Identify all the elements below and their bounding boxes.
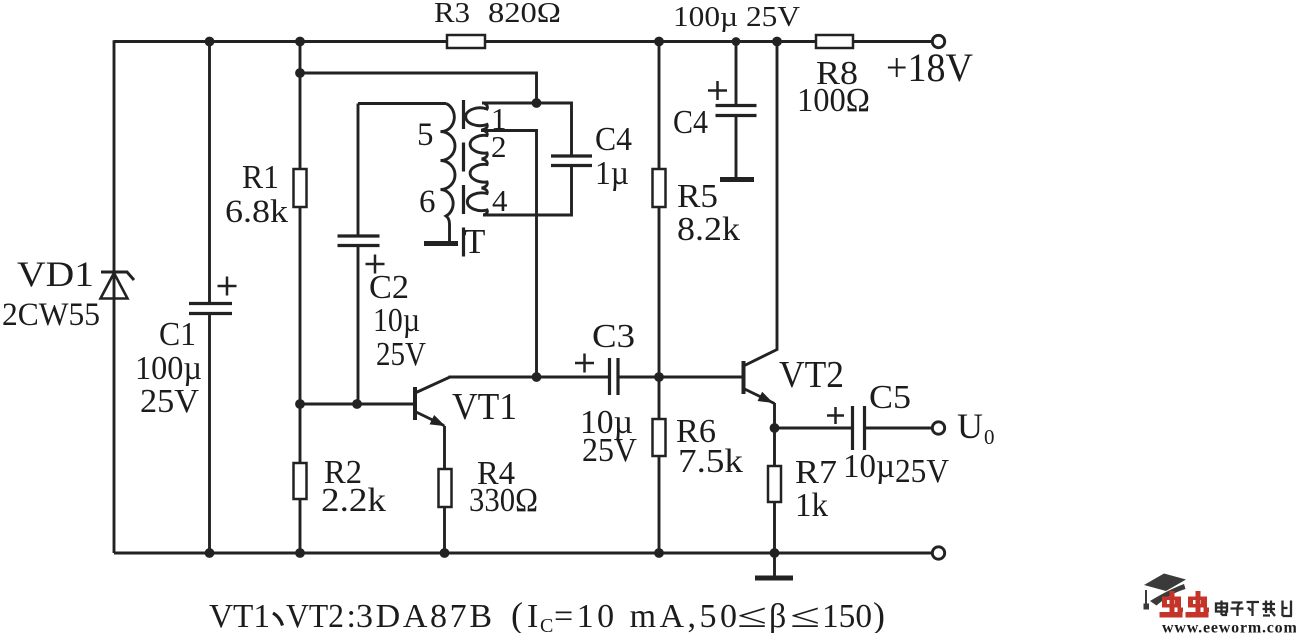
- svg-text:C5: C5: [869, 379, 911, 416]
- wire VT1 emitter lead: [443, 426, 446, 469]
- svg-text:VT1: VT1: [452, 386, 517, 428]
- junction C4 top rail: [732, 37, 741, 46]
- wire R5 column top: [658, 42, 661, 170]
- svg-text:VT1: VT1: [209, 598, 270, 633]
- wire R1 column top: [299, 42, 302, 170]
- wire pin4 bottom: [483, 166, 572, 216]
- wire R7 leads: [773, 428, 776, 553]
- svg-text:2: 2: [491, 129, 507, 164]
- svg-text:R7: R7: [795, 454, 837, 491]
- terminal U0 circle: [932, 422, 944, 434]
- svg-text:R3: R3: [434, 0, 470, 29]
- svg-text:www.eeworm.com: www.eeworm.com: [1162, 620, 1296, 633]
- svg-text:25V: 25V: [582, 432, 637, 469]
- svg-text:10µ: 10µ: [373, 302, 420, 339]
- junction R4 bottom rail: [440, 548, 450, 558]
- junction feedback tap on R1 column: [295, 68, 305, 78]
- svg-text:2CW55: 2CW55: [2, 297, 100, 333]
- wire C2 bottom lead to base node: [357, 246, 360, 405]
- wire C5 to output terminal: [865, 427, 933, 430]
- svg-text:(: (: [511, 595, 523, 633]
- wire R6 leads: [658, 377, 661, 553]
- svg-text:100Ω: 100Ω: [797, 82, 870, 119]
- wire feedback tap from R1 column to transformer node: [300, 73, 537, 103]
- wire R5 bottom to C3 node: [658, 207, 661, 377]
- junction R7 ground bottom rail: [770, 548, 780, 558]
- watermark site name glyphs: [1216, 601, 1292, 617]
- wire C3 to R6 node: [618, 376, 659, 379]
- transistor VT1: [415, 377, 450, 426]
- resistor R2: [294, 463, 307, 499]
- svg-text:C1: C1: [159, 316, 196, 353]
- svg-text:≤: ≤: [790, 598, 820, 633]
- svg-text:5: 5: [417, 117, 434, 153]
- svg-text:T: T: [464, 222, 485, 261]
- ground under transformer pin 6: [424, 241, 458, 246]
- transistor VT2: [744, 361, 775, 404]
- wire pin1 top to node: [482, 103, 572, 156]
- label R3 820: [434, 0, 561, 29]
- wire left vertical: [113, 40, 116, 553]
- svg-text:100µ 25V: 100µ 25V: [673, 1, 800, 33]
- wire tap pin1-2 down to VT1 collector: [481, 131, 537, 378]
- svg-text:+18V: +18V: [886, 45, 973, 90]
- junction VT2 emitter node: [770, 423, 780, 433]
- wire C4 bottom lead: [735, 116, 738, 179]
- junction VT2 collector top rail: [772, 37, 782, 47]
- svg-text:R5: R5: [677, 178, 718, 215]
- svg-text:C4: C4: [673, 104, 708, 141]
- terminal bottom-right circle: [932, 547, 944, 559]
- svg-text:C3: C3: [592, 318, 635, 355]
- wire R2 leads: [299, 404, 302, 553]
- resistor R3: [447, 35, 485, 48]
- junction C1 top rail: [205, 37, 215, 47]
- svg-text:150: 150: [822, 598, 872, 633]
- svg-text:): ): [873, 595, 885, 633]
- svg-text:1µ: 1µ: [595, 155, 629, 192]
- svg-text:6.8k: 6.8k: [225, 194, 289, 230]
- junction node transformer pin1 / C4: [532, 98, 542, 108]
- resistor R6: [653, 419, 666, 456]
- wire bottom rail: [114, 552, 932, 555]
- wire VT2 collector column: [744, 42, 778, 367]
- junction R1 top rail: [295, 37, 305, 47]
- svg-text:U: U: [957, 406, 983, 446]
- svg-text:25V: 25V: [895, 453, 949, 490]
- svg-text:0: 0: [984, 425, 995, 449]
- capacitor C3: [575, 354, 618, 396]
- wire C1 column top: [208, 42, 211, 304]
- svg-text:R1: R1: [242, 159, 279, 196]
- wire R1 column bottom to base node: [299, 207, 302, 404]
- transformer T core: [462, 100, 465, 257]
- svg-text:β: β: [769, 598, 786, 633]
- junction R5 top rail: [654, 37, 664, 47]
- resistor R5: [653, 169, 666, 207]
- svg-text:7.5k: 7.5k: [678, 443, 743, 480]
- junction R2 bottom rail: [295, 548, 305, 558]
- svg-text:10µ: 10µ: [843, 448, 895, 485]
- svg-text:VT2: VT2: [779, 354, 844, 396]
- transformer T secondary winding (pins 1-2-4): [466, 104, 488, 216]
- resistor R4: [439, 469, 452, 507]
- resistor R8: [816, 35, 853, 48]
- wire top rail right segment: [853, 40, 932, 43]
- wire base of VT2: [659, 376, 742, 379]
- watermark chongchong red glyphs: [1160, 591, 1210, 618]
- zener diode VD1: [101, 272, 135, 299]
- resistor R7: [768, 466, 781, 502]
- junction C3 / R6 / VT2 base: [654, 372, 664, 382]
- svg-text:C: C: [540, 615, 553, 633]
- junction R6 bottom rail: [654, 548, 664, 558]
- resistor R1: [294, 169, 307, 207]
- capacitor C2: [338, 236, 385, 274]
- svg-text:330Ω: 330Ω: [469, 482, 538, 519]
- svg-text:4: 4: [492, 183, 508, 218]
- wire C2 top lead from winding: [357, 104, 360, 237]
- junction VT1 collector / tap: [532, 372, 542, 382]
- wire base node horizontal: [300, 403, 414, 406]
- svg-text:≤: ≤: [737, 598, 767, 633]
- svg-text:1k: 1k: [795, 487, 828, 524]
- svg-text:8.2k: 8.2k: [677, 211, 740, 248]
- capacitor C1: [189, 277, 237, 314]
- wire top rail left segment: [114, 40, 447, 43]
- svg-text:C2: C2: [369, 269, 409, 306]
- wire top rail middle segment: [485, 40, 816, 43]
- svg-text:25V: 25V: [376, 336, 426, 373]
- wire R4 bottom lead: [443, 507, 446, 553]
- watermark graduation cap: [1144, 574, 1187, 610]
- transformer T primary winding (pins 5-6): [358, 104, 455, 242]
- capacitor C5: [827, 406, 865, 450]
- junction VT1 base / R2: [295, 399, 305, 409]
- wire VT2 emitter ground stub: [773, 553, 776, 576]
- ground bar under C4: [720, 177, 754, 182]
- capacitor C4 (100u) electrolytic: [708, 81, 757, 116]
- svg-text:25V: 25V: [140, 383, 199, 420]
- svg-text:I: I: [527, 598, 538, 633]
- caption transistor spec: [209, 595, 885, 633]
- svg-text::: :: [347, 598, 356, 633]
- wire VT2 emitter lead: [773, 403, 776, 428]
- wire emitter node to C5: [775, 427, 853, 430]
- svg-text:820Ω: 820Ω: [488, 0, 561, 29]
- svg-text:=10 mA,50: =10 mA,50: [554, 598, 737, 633]
- svg-text:2.2k: 2.2k: [321, 482, 386, 519]
- wire VT1 collector horizontal: [449, 376, 610, 379]
- svg-text:3DA87B: 3DA87B: [356, 598, 492, 633]
- junction C1 bottom rail: [205, 548, 215, 558]
- capacitor C4 (1u): [551, 156, 592, 166]
- svg-text:VD1: VD1: [17, 254, 94, 294]
- junction VT1 base / C2: [352, 399, 362, 409]
- svg-text:100µ: 100µ: [135, 350, 202, 387]
- wire C4 (100u) top lead: [735, 42, 738, 106]
- svg-text:6: 6: [419, 184, 436, 220]
- svg-text:VT2: VT2: [286, 598, 344, 633]
- svg-text:C4: C4: [595, 121, 632, 158]
- terminal +18V circle: [932, 35, 944, 47]
- ground under R7: [755, 576, 793, 581]
- wire C1 column bottom: [208, 314, 211, 554]
